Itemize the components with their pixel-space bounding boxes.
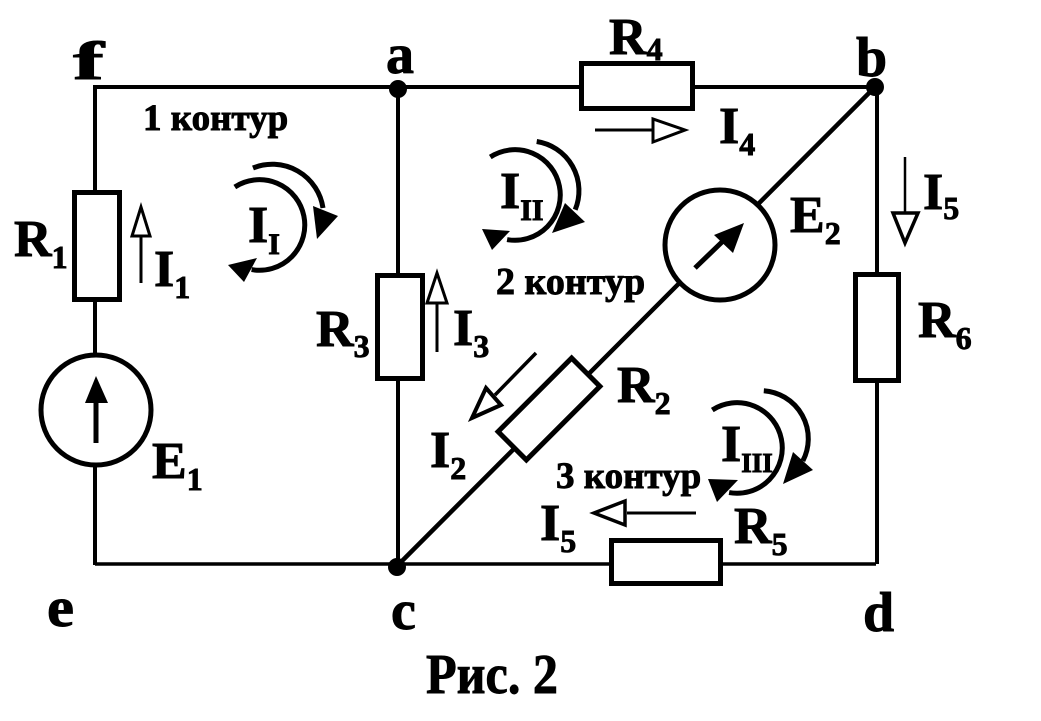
node c junction dot bbox=[388, 558, 406, 576]
node b junction dot bbox=[866, 78, 884, 96]
current arrow I4 bbox=[595, 119, 685, 142]
svg-text:f: f bbox=[73, 31, 106, 91]
current arrow I5 bottom bbox=[594, 501, 696, 525]
svg-text:c: c bbox=[391, 580, 416, 642]
current arrow I1 bbox=[132, 207, 150, 283]
wire a-c (middle branch) bbox=[396, 87, 400, 566]
source E2 arrow bbox=[695, 242, 722, 268]
resistor R5 bbox=[612, 541, 721, 584]
svg-text:d: d bbox=[863, 582, 894, 644]
wire b-d (right branch) bbox=[875, 87, 879, 564]
resistor R4 bbox=[582, 64, 693, 109]
wire e-c-d (bottom) bbox=[95, 562, 876, 566]
current arrow I3 bbox=[427, 273, 447, 352]
loop arrow I_II (contour 2) bbox=[482, 142, 585, 251]
loop arrow I_I (contour 1) bbox=[228, 164, 338, 282]
svg-text:e: e bbox=[47, 577, 74, 639]
loop arrow I_III (contour 3) bbox=[708, 391, 813, 502]
current arrow I2 bbox=[472, 353, 536, 418]
wire f-a-b (top) bbox=[95, 85, 875, 89]
resistor R3 bbox=[378, 276, 423, 379]
svg-text:Рис. 2: Рис. 2 bbox=[426, 644, 558, 706]
svg-text:2 контур: 2 контур bbox=[496, 261, 645, 303]
wire f-e (left branch) bbox=[93, 85, 97, 565]
svg-text:3 контур: 3 контур bbox=[556, 456, 701, 497]
resistor R6 bbox=[856, 275, 899, 381]
node a junction dot bbox=[389, 80, 407, 98]
resistor R2 bbox=[498, 358, 600, 460]
wire b-c (diagonal branch) bbox=[397, 87, 875, 566]
source E1 bbox=[41, 355, 151, 465]
svg-text:a: a bbox=[386, 24, 414, 86]
svg-text:b: b bbox=[856, 27, 887, 89]
svg-text:1 контур: 1 контур bbox=[143, 98, 288, 139]
source E1 arrow bbox=[94, 400, 99, 443]
resistor R1 bbox=[75, 193, 120, 300]
current arrow I5 right bbox=[893, 157, 918, 243]
source E2 bbox=[665, 190, 775, 300]
